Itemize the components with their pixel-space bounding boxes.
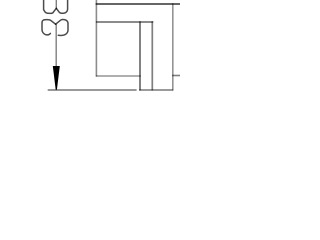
object line (dimensioned edge) bbox=[48, 89, 137, 91]
slot right vertical bbox=[151, 21, 153, 90]
dimension arrowhead (filled truncated wedge) bbox=[53, 66, 60, 90]
dimension line lower segment bbox=[55, 24, 57, 67]
slot left vertical bbox=[139, 21, 141, 90]
dimension text char 1 "3" rotated bbox=[42, 20, 68, 36]
right vertical wall bbox=[172, 3, 174, 90]
dimension text char 2 "3" rotated (top, cut by image edge) bbox=[44, 0, 68, 13]
slot bottom horizontal bbox=[139, 89, 173, 91]
big rectangle bottom bbox=[96, 75, 141, 77]
left vertical wall bbox=[95, 0, 97, 77]
right stub horizontal bbox=[172, 75, 180, 77]
upper inner horizontal bbox=[96, 21, 153, 23]
top contour line (thick) bbox=[96, 3, 180, 5]
dimension line upper segment bbox=[55, 0, 57, 8]
